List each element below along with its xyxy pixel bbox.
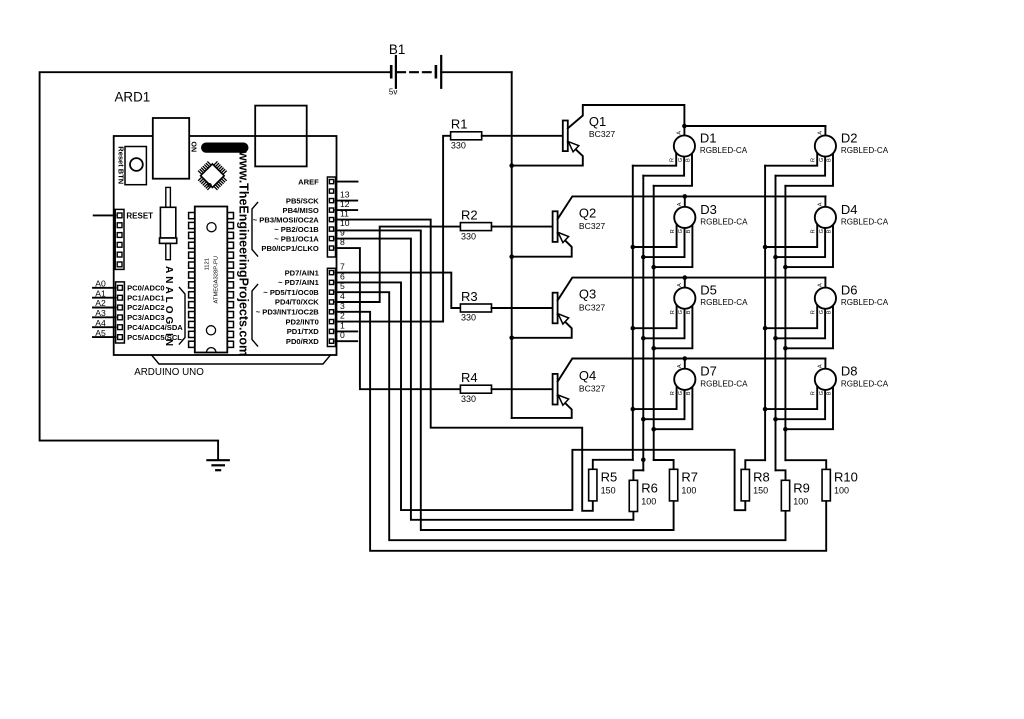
- wire D8 cathode B: [785, 379, 833, 429]
- pin A3: [118, 315, 123, 320]
- svg-text:R: R: [811, 229, 817, 233]
- junction 5V/Q2 emitter: [509, 254, 514, 259]
- wire D7 cathode G: [643, 379, 684, 419]
- svg-text:7: 7: [340, 262, 345, 272]
- RGB LED D1 RGBLED-CA: [674, 135, 695, 156]
- svg-text:R8: R8: [753, 469, 770, 484]
- wire bus right G to R9: [776, 470, 786, 480]
- resistor R10: [822, 469, 830, 501]
- svg-text:RGBLED-CA: RGBLED-CA: [841, 298, 889, 307]
- junction bus G: [773, 417, 778, 422]
- svg-text:B: B: [686, 310, 692, 314]
- wire emitter: [512, 142, 583, 166]
- transistor Q2 BC327: [553, 211, 558, 242]
- RESET pin header: [115, 209, 124, 269]
- svg-text:A0: A0: [95, 279, 106, 289]
- svg-text:Q3: Q3: [579, 287, 596, 302]
- board bottom notch: [152, 355, 331, 364]
- junction bus G: [641, 255, 646, 260]
- wire D5 cathode B: [654, 298, 693, 348]
- wire pin6 to R8: [336, 282, 746, 510]
- wire bus right B to R10: [785, 460, 826, 469]
- wire D1 cathode G: [643, 146, 684, 176]
- svg-text:A3: A3: [95, 308, 106, 318]
- wire D4 anode: [824, 196, 826, 217]
- wire D7 anode: [684, 359, 686, 380]
- svg-text:A5: A5: [95, 328, 106, 338]
- svg-text:R: R: [811, 310, 817, 314]
- svg-text:D6: D6: [841, 283, 858, 298]
- svg-text:BC327: BC327: [579, 221, 605, 231]
- svg-text:13: 13: [340, 190, 350, 200]
- svg-text:D8: D8: [841, 364, 858, 379]
- ground: [207, 459, 228, 461]
- wire D6 cathode B: [785, 298, 833, 348]
- svg-text:D7: D7: [700, 364, 717, 379]
- svg-text:PC1/ADC1: PC1/ADC1: [127, 293, 165, 302]
- resistor R2: [460, 223, 491, 231]
- resistor R3: [460, 304, 491, 312]
- RGB LED D5 RGBLED-CA: [674, 288, 695, 309]
- transistor Q3 BC327: [553, 293, 558, 324]
- wire D8 cathode G: [776, 379, 826, 419]
- svg-text:PC2/ADC2: PC2/ADC2: [127, 303, 165, 312]
- wire D7 cathode R: [633, 379, 677, 409]
- svg-text:PB0/ICP1/CLKO: PB0/ICP1/CLKO: [261, 244, 318, 253]
- junction bus R: [631, 245, 636, 250]
- wire pin 0 stub: [336, 340, 358, 342]
- svg-text:B: B: [827, 229, 833, 233]
- svg-text:D5: D5: [700, 283, 717, 298]
- junction D1 anode: [682, 124, 687, 129]
- junction bus G: [641, 336, 646, 341]
- wire D2 anode drop: [824, 126, 826, 146]
- bracket PB group: [252, 203, 258, 257]
- svg-text:R6: R6: [641, 480, 658, 495]
- svg-text:150: 150: [753, 486, 768, 496]
- svg-text:100: 100: [681, 486, 696, 496]
- wire D5 cathode G: [643, 298, 684, 338]
- svg-text:A: A: [818, 202, 824, 206]
- wire D6 cathode R: [765, 298, 817, 328]
- svg-text:RGBLED-CA: RGBLED-CA: [841, 217, 889, 226]
- wire emitter: [512, 233, 572, 257]
- wire D1 cathode B: [654, 146, 692, 186]
- wire R1 to Q1 base: [482, 135, 563, 137]
- RGB LED D8 RGBLED-CA: [815, 369, 836, 390]
- junction bus B: [651, 427, 656, 432]
- wire collector: [558, 196, 826, 219]
- svg-text:RGBLED-CA: RGBLED-CA: [841, 379, 889, 388]
- wire pin9 to R6: [336, 239, 634, 520]
- svg-text:G: G: [678, 310, 684, 314]
- bracket analog group: [179, 288, 185, 345]
- svg-text:330: 330: [461, 394, 476, 404]
- junction D5 anode: [683, 275, 688, 280]
- svg-text:PD2/INT0: PD2/INT0: [285, 317, 318, 326]
- svg-text:D2: D2: [841, 130, 858, 145]
- wire D2 cathode G: [776, 146, 826, 176]
- resistor R5: [589, 469, 597, 501]
- wire R4 to Q4 base: [492, 388, 553, 390]
- wire D8 cathode R: [765, 379, 817, 409]
- wire R2 to Q2 base: [492, 226, 553, 228]
- junction bus R: [631, 407, 636, 412]
- svg-text:Q1: Q1: [589, 114, 606, 129]
- wire pin 12 stub: [336, 209, 358, 211]
- svg-text:330: 330: [451, 141, 466, 151]
- svg-text:~ PB3/MOSI/OC2A: ~ PB3/MOSI/OC2A: [253, 215, 320, 224]
- digital pin header AREF/13-8: [327, 177, 335, 257]
- svg-text:R3: R3: [461, 289, 478, 304]
- wire bus left G to R6: [633, 470, 643, 480]
- svg-text:R10: R10: [834, 469, 858, 484]
- wire emitter: [512, 396, 572, 418]
- wire bus right R to R8: [745, 460, 765, 469]
- wire bus left R vertical: [632, 166, 634, 460]
- wire pin8 to R4: [336, 248, 461, 389]
- svg-text:G: G: [819, 229, 825, 233]
- svg-text:100: 100: [641, 497, 656, 507]
- wire battery negative to left rail: [40, 72, 391, 460]
- svg-text:9: 9: [340, 228, 345, 238]
- junction bus B: [783, 427, 788, 432]
- RGB LED D4 RGBLED-CA: [815, 207, 836, 228]
- svg-text:~ PB1/OC1A: ~ PB1/OC1A: [274, 234, 319, 243]
- svg-text:G: G: [819, 391, 825, 395]
- svg-text:BC327: BC327: [579, 384, 605, 394]
- junction bus B: [651, 346, 656, 351]
- wire RESET stub: [94, 214, 116, 216]
- svg-text:A1: A1: [95, 288, 106, 298]
- junction bus B: [783, 346, 788, 351]
- RGB LED D6 RGBLED-CA: [815, 288, 836, 309]
- svg-text:B1: B1: [389, 42, 405, 57]
- QFP chip (diamond): [214, 162, 217, 165]
- wire D4 cathode R: [765, 217, 817, 247]
- wire D2 cathode B: [785, 146, 833, 186]
- svg-text:B: B: [686, 229, 692, 233]
- svg-text:5v: 5v: [389, 88, 397, 97]
- svg-text:R: R: [670, 310, 676, 314]
- svg-text:B: B: [827, 158, 833, 162]
- resistor R7: [669, 469, 677, 501]
- svg-text:ARDUINO UNO: ARDUINO UNO: [134, 367, 204, 378]
- svg-text:D4: D4: [841, 202, 858, 217]
- svg-text:R: R: [811, 391, 817, 395]
- wire bus right B vertical: [784, 186, 786, 460]
- wire D1 anode: [683, 126, 685, 146]
- svg-text:www.TheEngineeringProjects.com: www.TheEngineeringProjects.com: [237, 150, 251, 356]
- svg-text:G: G: [678, 391, 684, 395]
- svg-text:~ PD5/T1/OC0B: ~ PD5/T1/OC0B: [263, 288, 319, 297]
- svg-text:A: A: [677, 131, 683, 135]
- wire bus left R to R5: [593, 460, 633, 470]
- wire D5 anode: [684, 278, 686, 299]
- svg-text:R: R: [811, 158, 817, 162]
- svg-text:RGBLED-CA: RGBLED-CA: [700, 379, 748, 388]
- svg-text:B: B: [827, 310, 833, 314]
- svg-text:R9: R9: [793, 480, 810, 495]
- wire bus left B vertical: [653, 186, 655, 460]
- resistor R4: [460, 385, 491, 393]
- wire D3 cathode B: [654, 217, 693, 267]
- wire pin2 to R1: [336, 136, 451, 322]
- RGB LED D2 RGBLED-CA: [815, 135, 836, 156]
- battery B1: [390, 66, 393, 77]
- ATMEGA328 DIP chip: [195, 207, 228, 353]
- wire bus left G vertical: [642, 176, 644, 471]
- wire pin 13 stub: [336, 200, 358, 202]
- svg-text:B: B: [827, 391, 833, 395]
- reset button: [125, 147, 146, 185]
- svg-text:Q2: Q2: [579, 205, 596, 220]
- wire emitter: [512, 314, 572, 337]
- svg-text:RGBLED-CA: RGBLED-CA: [841, 146, 889, 155]
- wire D5 cathode R: [633, 298, 677, 328]
- wire bus right G vertical: [775, 176, 777, 471]
- svg-text:R: R: [670, 229, 676, 233]
- resistor R6: [629, 480, 637, 511]
- svg-text:G: G: [678, 229, 684, 233]
- svg-text:BC327: BC327: [589, 129, 615, 139]
- wire collector: [558, 278, 826, 301]
- wire D6 anode: [824, 278, 826, 299]
- svg-text:~ PB2/OC1B: ~ PB2/OC1B: [274, 225, 319, 234]
- svg-text:Reset BTN: Reset BTN: [117, 146, 126, 184]
- Arduino ARD1 board outline: [114, 136, 337, 355]
- digital pin header 7-0: [327, 268, 335, 346]
- svg-text:RGBLED-CA: RGBLED-CA: [700, 146, 748, 155]
- junction bus G: [641, 417, 646, 422]
- junction bus R: [763, 326, 768, 331]
- svg-text:R: R: [670, 391, 676, 395]
- svg-text:PD1/TXD: PD1/TXD: [287, 327, 320, 336]
- pin A2: [118, 305, 123, 310]
- analog pin header A0-A5: [116, 282, 125, 343]
- svg-text:~ PD3/INT1/OC2B: ~ PD3/INT1/OC2B: [256, 308, 320, 317]
- junction bus G: [773, 255, 778, 260]
- svg-text:ARD1: ARD1: [115, 90, 151, 105]
- svg-text:G: G: [819, 310, 825, 314]
- svg-text:Q4: Q4: [579, 368, 596, 383]
- svg-text:D3: D3: [700, 202, 717, 217]
- svg-text:G: G: [819, 158, 825, 162]
- svg-text:1121: 1121: [204, 258, 210, 270]
- svg-text:RGBLED-CA: RGBLED-CA: [700, 217, 748, 226]
- svg-text:150: 150: [601, 486, 616, 496]
- wire D7 cathode B: [654, 379, 693, 429]
- svg-text:RESET: RESET: [126, 212, 153, 221]
- svg-text:A: A: [677, 364, 683, 368]
- svg-text:G: G: [678, 158, 684, 162]
- wire collector: [568, 105, 685, 128]
- wire pin3 to R10: [336, 312, 827, 551]
- wire anode rail row1: [684, 125, 825, 127]
- wire D8 anode: [824, 359, 826, 380]
- wire collector: [558, 359, 826, 382]
- power jack: [255, 106, 307, 167]
- wire D3 cathode R: [633, 217, 677, 247]
- wire R3 to Q3 base: [492, 307, 553, 309]
- wire pin4 to R2: [336, 227, 461, 302]
- resistor R8: [741, 469, 749, 501]
- svg-text:R2: R2: [461, 207, 478, 222]
- RGB LED D3 RGBLED-CA: [674, 207, 695, 228]
- pin AREF stub: [336, 181, 358, 183]
- svg-text:PD0/RXD: PD0/RXD: [286, 337, 319, 346]
- svg-text:ON: ON: [190, 142, 197, 153]
- svg-text:PB5/SCK: PB5/SCK: [286, 196, 319, 205]
- crystal: [166, 187, 171, 207]
- wire D4 cathode B: [785, 217, 833, 267]
- wire 5V rail vertical: [511, 72, 513, 418]
- wire D3 cathode G: [643, 217, 684, 257]
- wire pin10 to R7: [336, 230, 674, 530]
- svg-text:PB4/MISO: PB4/MISO: [283, 206, 319, 215]
- wire pin 1 stub: [336, 330, 358, 332]
- transistor Q4 BC327: [553, 374, 558, 405]
- svg-text:D1: D1: [700, 130, 717, 145]
- svg-text:PC0/ADC0: PC0/ADC0: [127, 284, 165, 293]
- pin A1: [118, 295, 123, 300]
- svg-text:A: A: [677, 202, 683, 206]
- RGB LED D7 RGBLED-CA: [674, 369, 695, 390]
- bracket PD group: [252, 285, 258, 347]
- wire D1 cathode R: [633, 146, 676, 166]
- svg-text:~ PD7/AIN1: ~ PD7/AIN1: [278, 278, 320, 287]
- wire D3 anode: [684, 196, 686, 217]
- junction bus R: [763, 407, 768, 412]
- svg-text:R7: R7: [681, 469, 698, 484]
- wire D4 cathode G: [776, 217, 826, 257]
- svg-text:330: 330: [461, 313, 476, 323]
- svg-text:PC3/ADC3: PC3/ADC3: [127, 313, 165, 322]
- svg-text:BC327: BC327: [579, 302, 605, 312]
- svg-text:A: A: [818, 283, 824, 287]
- svg-text:R5: R5: [601, 469, 618, 484]
- transistor Q1 BC327: [563, 121, 568, 152]
- svg-text:A4: A4: [95, 318, 106, 328]
- svg-text:R: R: [670, 158, 676, 162]
- wire D2 cathode R: [765, 146, 817, 166]
- junction bus B: [783, 265, 788, 270]
- wire pin5 to R9: [336, 292, 786, 540]
- svg-text:AREF: AREF: [298, 177, 319, 186]
- junction bus left G: [641, 458, 646, 463]
- svg-text:ATMEGA328P-PU: ATMEGA328P-PU: [214, 256, 220, 304]
- junction bus G: [773, 336, 778, 341]
- wire D6 cathode G: [776, 298, 826, 338]
- wire bus right R vertical: [764, 166, 766, 461]
- junction 5V/Q3 emitter: [509, 336, 514, 341]
- svg-text:RGBLED-CA: RGBLED-CA: [700, 298, 748, 307]
- svg-text:A: A: [818, 364, 824, 368]
- svg-text:PC5/ADC5/SCL: PC5/ADC5/SCL: [127, 333, 182, 342]
- ON LED indicator pill: [201, 143, 249, 153]
- svg-text:R4: R4: [461, 370, 478, 385]
- svg-text:B: B: [686, 391, 692, 395]
- junction D7 anode: [683, 356, 688, 361]
- svg-text:PC4/ADC4/SDA: PC4/ADC4/SDA: [127, 323, 183, 332]
- svg-text:B: B: [686, 158, 692, 162]
- svg-text:100: 100: [793, 497, 808, 507]
- wire pin7 to R3: [336, 273, 461, 308]
- junction bus B: [651, 265, 656, 270]
- svg-text:A: A: [677, 283, 683, 287]
- wire battery positive to 5V rail: [441, 71, 512, 73]
- USB connector: [153, 118, 189, 179]
- svg-text:PD4/T0/XCK: PD4/T0/XCK: [275, 298, 319, 307]
- svg-text:330: 330: [461, 231, 476, 241]
- junction bus R: [631, 326, 636, 331]
- pin A4: [118, 325, 123, 330]
- pin A0: [118, 285, 123, 290]
- svg-text:A: A: [818, 131, 824, 135]
- pin A5: [118, 335, 123, 340]
- junction 5V/Q1 emitter: [509, 163, 514, 168]
- junction D3 anode: [683, 194, 688, 199]
- junction bus R: [763, 245, 768, 250]
- resistor R9: [781, 480, 789, 511]
- svg-text:A2: A2: [95, 298, 106, 308]
- wire pin11 to R5: [336, 220, 593, 511]
- wire bus left B to R7: [654, 460, 674, 469]
- svg-text:R1: R1: [451, 117, 468, 132]
- resistor R1: [451, 132, 482, 140]
- svg-text:PD7/AIN1: PD7/AIN1: [285, 268, 320, 277]
- svg-text:100: 100: [834, 486, 849, 496]
